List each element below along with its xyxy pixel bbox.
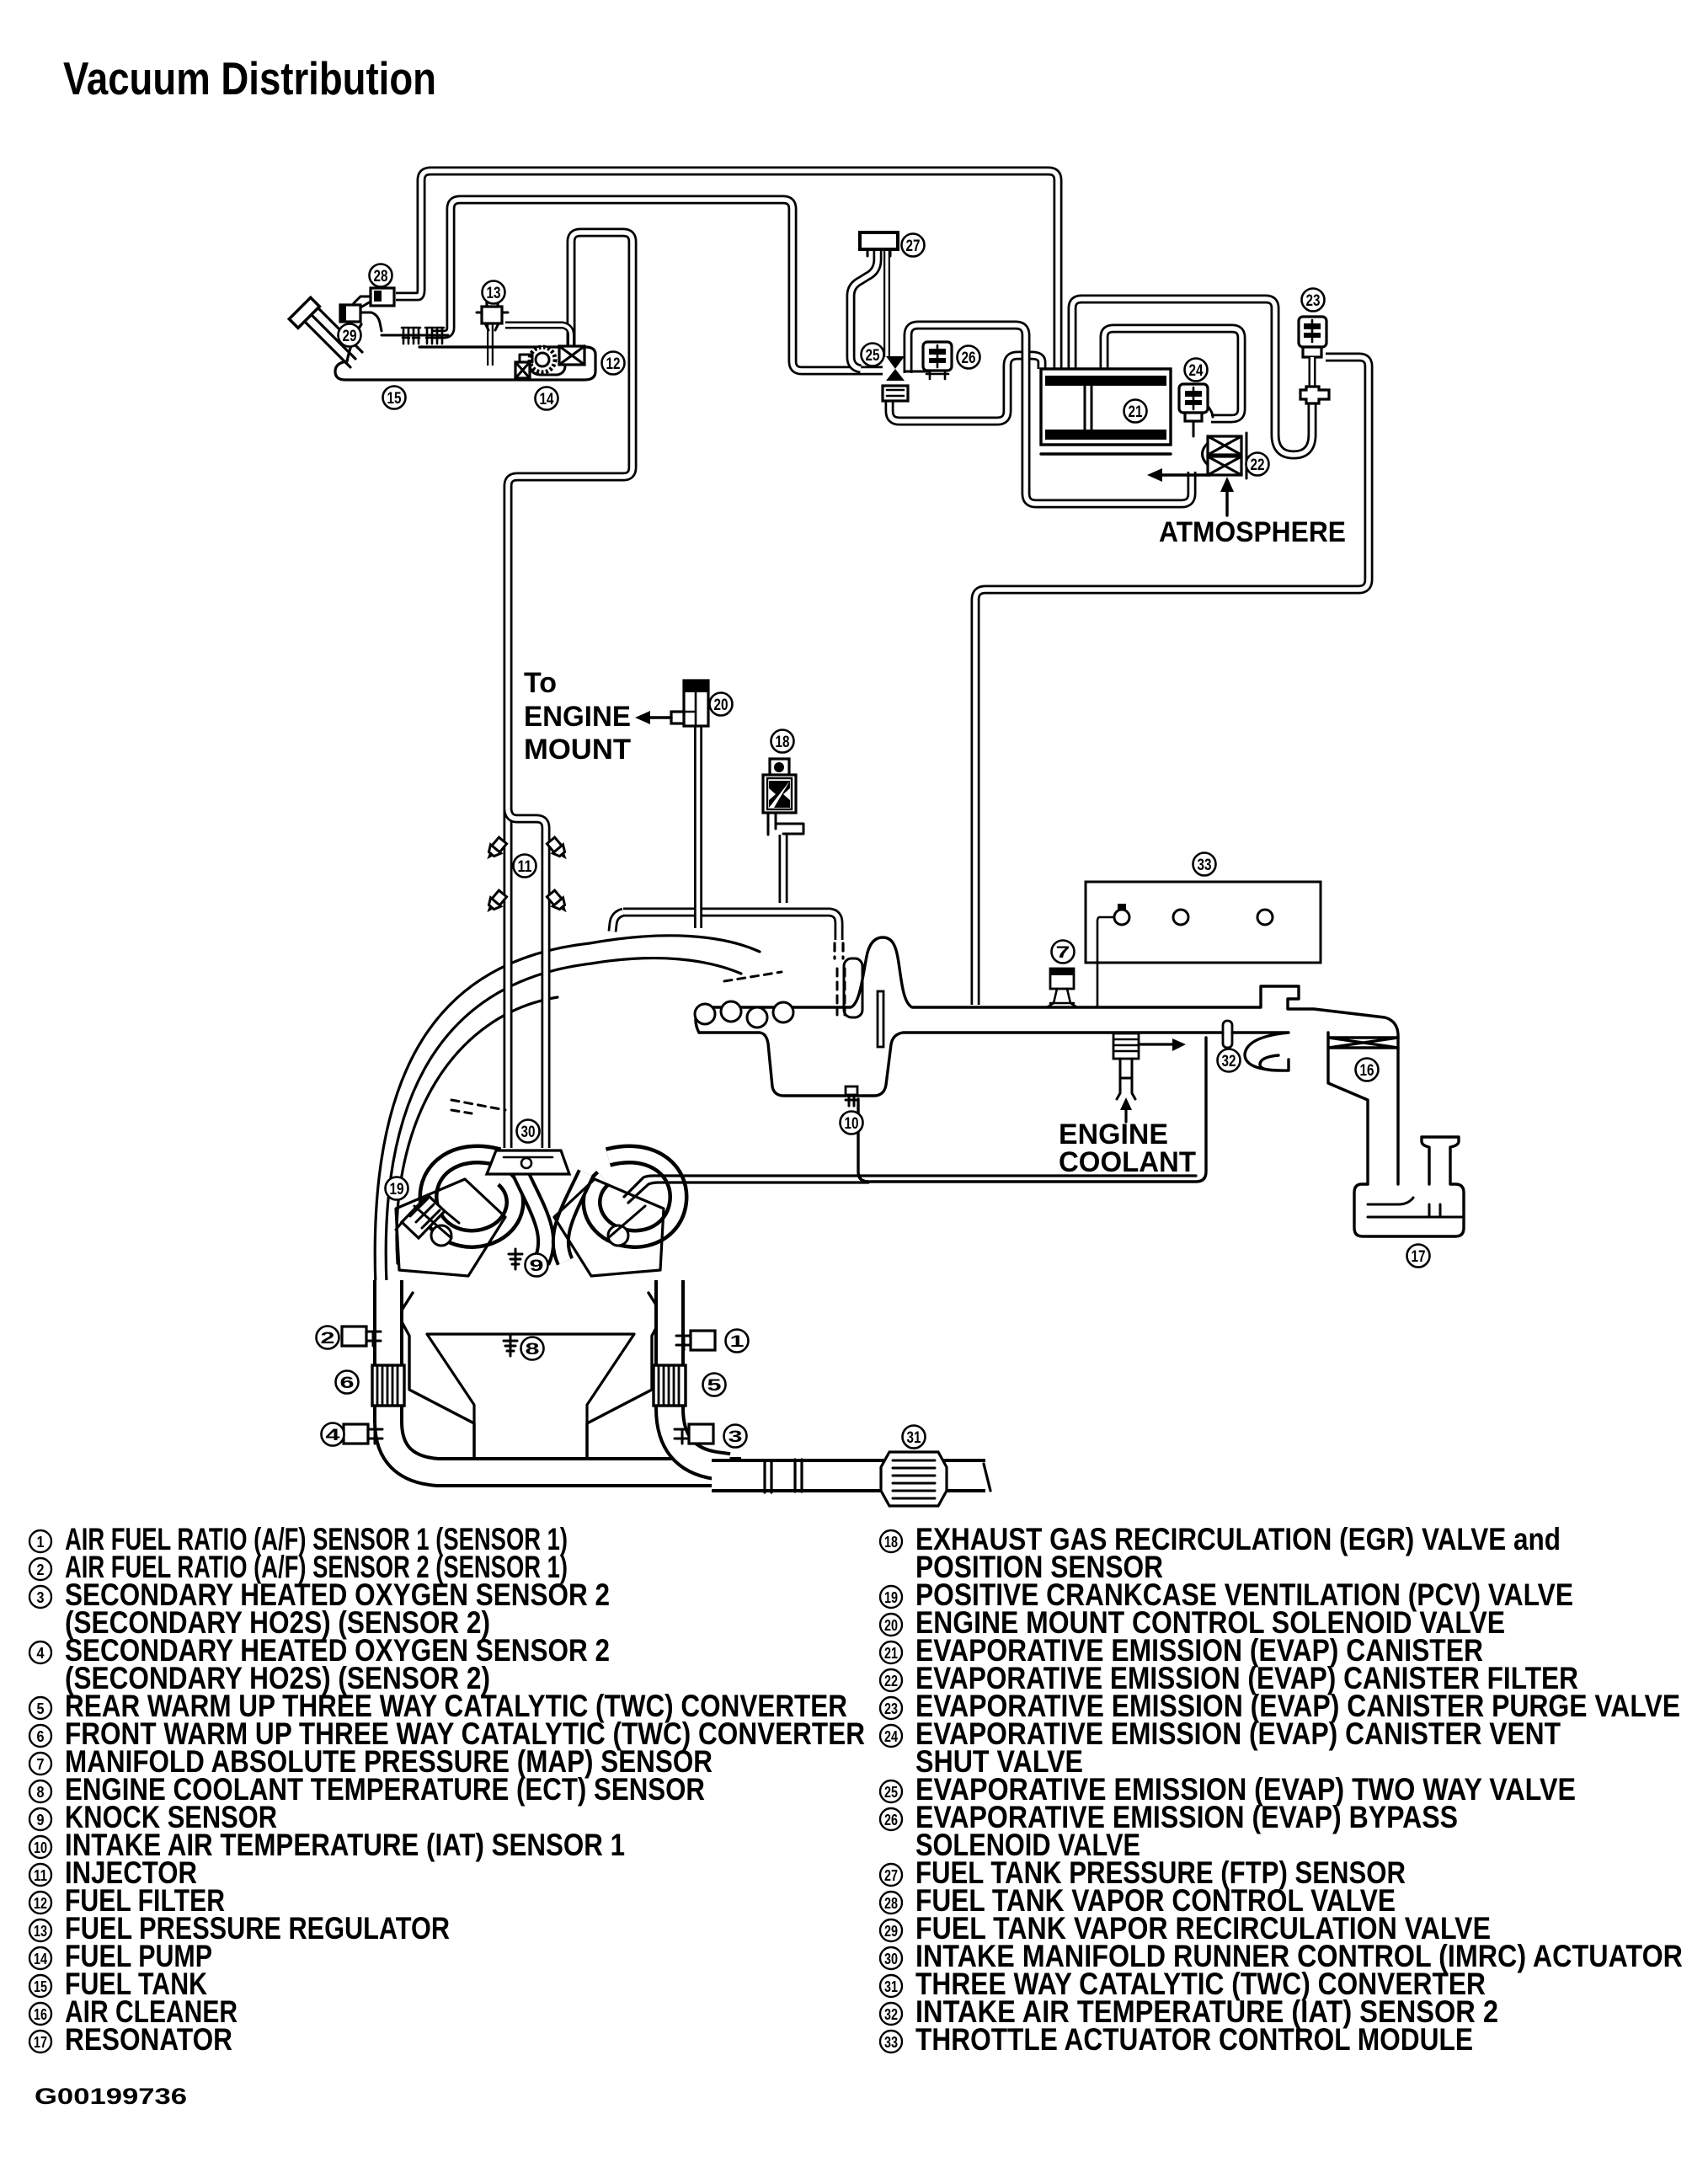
svg-text:24: 24 (1189, 362, 1204, 380)
label 16 (1356, 1059, 1379, 1081)
fuel tank filler neck middle (308, 312, 355, 359)
svg-text:8: 8 (37, 1784, 45, 1801)
label 8 (521, 1337, 544, 1360)
label 31 (903, 1426, 926, 1449)
label 22 (1246, 453, 1269, 476)
legend item 28 (880, 1883, 1396, 1918)
svg-text:21: 21 (884, 1645, 898, 1662)
svg-text:26: 26 (884, 1812, 898, 1828)
legend item 12 (29, 1883, 225, 1918)
svg-text:10: 10 (845, 1115, 859, 1133)
legend item 7 (29, 1744, 713, 1779)
wire from module 33 to duct (1097, 917, 1114, 1007)
atmosphere inlet arrow (1220, 477, 1234, 515)
left cylinder head and exhaust manifold (396, 1179, 505, 1276)
label 2 (317, 1327, 339, 1349)
legend item 13 (29, 1911, 450, 1946)
svg-text:5: 5 (707, 1377, 723, 1395)
fuel filler cap (289, 297, 319, 328)
three way catalytic converter 31 (881, 1452, 947, 1506)
svg-text:31: 31 (884, 1978, 898, 1995)
svg-text:13: 13 (487, 285, 501, 302)
IAT sensor 2 (32) (1216, 1021, 1239, 1048)
IMRC actuator 30 (487, 1150, 569, 1174)
fuel tank filler neck outer (302, 318, 350, 367)
svg-text:32: 32 (1222, 1053, 1236, 1070)
manifold runner crossover right (561, 1173, 586, 1262)
hose: injector rail second branch (508, 809, 546, 1148)
label 5 (703, 1374, 726, 1396)
svg-text:27: 27 (884, 1867, 898, 1884)
svg-text:MOUNT: MOUNT (524, 734, 631, 766)
svg-text:23: 23 (1306, 292, 1321, 310)
svg-text:23: 23 (884, 1700, 898, 1717)
hose: EGR passage left bend (612, 912, 623, 932)
label 12 (602, 352, 625, 375)
hose: fuel tank vapor control valve (28) to EVAP canister top (396, 171, 1058, 369)
label 7 (1052, 941, 1075, 964)
label 6 (336, 1371, 359, 1394)
legend item 14 (29, 1939, 212, 1973)
label 15 (383, 387, 406, 409)
svg-text:20: 20 (714, 697, 729, 714)
hose: plenum sweep middle (386, 958, 741, 1284)
label 19 (386, 1177, 408, 1200)
svg-text:15: 15 (34, 1978, 47, 1995)
A/F sensor 1 (676, 1331, 715, 1350)
svg-text:17: 17 (34, 2034, 47, 2051)
svg-text:19: 19 (390, 1181, 404, 1198)
svg-text:15: 15 (387, 390, 402, 408)
legend item 22 (880, 1661, 1578, 1695)
intake duct left end cap (696, 1007, 699, 1033)
legend item 15 (29, 1967, 207, 2001)
hose: EGR passage horizontal (623, 912, 839, 940)
legend item 1 (29, 1522, 568, 1556)
svg-text:28: 28 (374, 268, 388, 286)
fuel filter 12 (559, 346, 584, 365)
svg-text:13: 13 (34, 1923, 47, 1940)
label 17 (1407, 1245, 1430, 1268)
label 1 (726, 1330, 749, 1353)
hose: purge valve (23) to intake air duct (975, 357, 1369, 1005)
intake manifold runner horn right (592, 1154, 679, 1238)
EGR plenum port (844, 958, 862, 1017)
hose: two way valve (25) bottom loop to canister port (889, 355, 1042, 421)
intake air duct top outline (699, 937, 1398, 1038)
svg-text:17: 17 (1412, 1248, 1426, 1266)
svg-text:2: 2 (37, 1561, 45, 1578)
svg-text:18: 18 (884, 1534, 898, 1551)
label 11 (514, 855, 536, 878)
A/F sensor 2 (342, 1327, 381, 1346)
tailpipe end (984, 1464, 990, 1491)
intake air duct bottom outline (699, 1033, 1289, 1096)
svg-text:3: 3 (729, 1428, 743, 1446)
legend item 20 (880, 1605, 1505, 1640)
legend item 21 (880, 1633, 1483, 1668)
hose: fuel filter (12) to injector rail (508, 232, 632, 1148)
coolant heated purge spout (1113, 1033, 1139, 1099)
svg-text:31: 31 (907, 1429, 921, 1447)
secondary HO2S sensor 3 (675, 1424, 713, 1444)
tee fitting below purge valve 23 (1300, 387, 1329, 403)
legend item 8 (29, 1772, 705, 1807)
legend item 3 (29, 1577, 610, 1612)
svg-text:7: 7 (37, 1756, 45, 1773)
legend item 11 (29, 1855, 197, 1890)
svg-text:26: 26 (962, 350, 976, 367)
label 27 (902, 234, 925, 257)
MAP sensor 7 (1047, 969, 1077, 1007)
svg-text:RESONATOR: RESONATOR (65, 2022, 232, 2057)
fuel tank (15) outline (335, 347, 595, 380)
EVAP canister vent shut valve 24 (1179, 384, 1213, 436)
legend item 16 (29, 1994, 238, 2029)
svg-text:29: 29 (884, 1923, 898, 1940)
label 29 (339, 324, 361, 347)
svg-text:20: 20 (884, 1617, 898, 1634)
fuel tank pressure sensor 27 (860, 232, 898, 256)
svg-text:COOLANT: COOLANT (1059, 1146, 1196, 1178)
atmosphere outlet arrow (1147, 468, 1210, 482)
legend item 30 (880, 1939, 1683, 1973)
injectors 11 (482, 836, 572, 916)
knock sensor 9 bolt (509, 1249, 522, 1269)
legend item 10 (29, 1828, 625, 1862)
svg-text:7: 7 (1056, 944, 1070, 962)
legend item 9 (29, 1800, 277, 1834)
svg-text:8: 8 (526, 1341, 540, 1359)
svg-text:16: 16 (34, 2006, 47, 2023)
svg-text:4: 4 (326, 1427, 341, 1444)
EVAP canister filter 22 (1203, 433, 1247, 478)
label 20 (710, 693, 733, 716)
fuel tank filler neck inner (315, 305, 362, 352)
right exhaust downpipe (670, 1280, 729, 1467)
PCV valve 19 (396, 1195, 459, 1238)
legend item 18 (880, 1522, 1561, 1556)
fuel pump 14 (515, 347, 565, 378)
svg-text:ENGINE: ENGINE (524, 701, 631, 733)
label 3 (724, 1425, 747, 1448)
svg-text:21: 21 (1129, 403, 1143, 421)
svg-text:18: 18 (776, 734, 790, 751)
intake runner ports (695, 1001, 793, 1028)
hose: plenum sweep outer (375, 936, 760, 1287)
svg-text:5: 5 (37, 1700, 45, 1717)
manifold runner crossover left (520, 1173, 546, 1262)
svg-text:29: 29 (343, 328, 357, 345)
front warm up TWC converter 6 (372, 1365, 404, 1406)
purge flow arrow (1139, 1038, 1186, 1051)
legend item 25 (880, 1772, 1576, 1807)
svg-text:To: To (524, 667, 557, 699)
rear warm up TWC converter 5 (654, 1365, 686, 1406)
svg-text:2: 2 (321, 1330, 335, 1348)
svg-text:9: 9 (37, 1812, 45, 1828)
hidden passage (dashed) diagonal (724, 972, 782, 981)
exhaust flange joints (765, 1460, 802, 1492)
legend item 23 (880, 1689, 1680, 1723)
throttle plate (878, 991, 883, 1047)
fuel tank top left outline (347, 324, 361, 361)
intake manifold runner horn left (429, 1154, 515, 1238)
fuel tank vapor recirculation valve 29 (340, 305, 382, 331)
coolant arrow (1120, 1097, 1132, 1122)
svg-text:3: 3 (37, 1589, 45, 1606)
legend item 6 (29, 1716, 865, 1751)
svg-text:24: 24 (884, 1728, 898, 1745)
hidden passage (dashed) manifold (451, 1100, 505, 1113)
label 26 (958, 346, 980, 369)
label 14 (536, 387, 558, 410)
EVAP canister 21 (1041, 369, 1171, 454)
svg-text:1: 1 (37, 1534, 45, 1551)
legend item 19 (880, 1577, 1573, 1612)
hose: fuel tank fittings to EVAP two way valve (25) (431, 200, 883, 371)
svg-text:11: 11 (518, 858, 532, 876)
svg-text:6: 6 (340, 1375, 355, 1392)
hose: EGR hidden passage (dashed) (835, 943, 843, 958)
label 30 (517, 1120, 540, 1143)
resonator 17 (1354, 1137, 1464, 1236)
svg-text:11: 11 (34, 1867, 47, 1884)
svg-text:25: 25 (884, 1784, 898, 1801)
svg-text:33: 33 (1198, 857, 1212, 874)
hose: fuel pressure regulator (13) outlet (505, 325, 571, 347)
svg-text:22: 22 (1251, 456, 1265, 474)
svg-text:9: 9 (530, 1257, 544, 1275)
svg-text:Vacuum Distribution: Vacuum Distribution (63, 52, 436, 104)
secondary HO2S sensor 4 (344, 1424, 382, 1444)
svg-text:22: 22 (884, 1673, 898, 1690)
EGR valve and position sensor 18 (763, 759, 803, 835)
IAT sensor 1 (10) (846, 1086, 857, 1106)
svg-text:19: 19 (884, 1589, 898, 1606)
svg-text:14: 14 (540, 391, 554, 408)
engine mount control solenoid valve 20 (671, 681, 708, 726)
label 21 (1124, 400, 1147, 423)
engine coolant enclosure box (858, 1038, 1206, 1182)
legend item 2 (29, 1550, 568, 1584)
hidden passage (dashed) near throttle (837, 969, 845, 1015)
label 28 (370, 264, 392, 287)
hose: regulator return into tank (487, 318, 494, 366)
svg-text:G00199736: G00199736 (35, 2084, 187, 2109)
label 13 (483, 281, 505, 304)
fuel pressure regulator 13 (477, 300, 508, 330)
label 24 (1185, 359, 1208, 382)
svg-text:12: 12 (606, 355, 621, 373)
hose: canister to vent shut valve (24) inner loop (1104, 328, 1241, 419)
arrow to engine mount (635, 711, 671, 724)
svg-text:25: 25 (866, 347, 880, 365)
svg-text:14: 14 (34, 1951, 47, 1967)
legend item 17 (29, 2022, 232, 2057)
hose: FTP sensor (27) riser (851, 249, 878, 369)
legend item 31 (880, 1967, 1486, 2001)
hose: purge valve 23 to tee fitting (1309, 357, 1316, 396)
svg-text:THROTTLE ACTUATOR CONTROL MODU: THROTTLE ACTUATOR CONTROL MODULE (915, 2022, 1473, 2057)
throttle actuator control module 33 (1086, 882, 1321, 963)
hose: EVAP bypass solenoid (26) loop to canister filter (22) (908, 325, 1192, 504)
engine block cavity (427, 1334, 634, 1459)
label 10 (841, 1112, 863, 1134)
svg-text:6: 6 (37, 1728, 45, 1745)
svg-text:30: 30 (521, 1124, 536, 1141)
EVAP two way valve 25 (883, 356, 928, 401)
svg-text:16: 16 (1360, 1062, 1374, 1080)
legend item 29 (880, 1911, 1491, 1946)
label 9 (526, 1254, 548, 1277)
hose: EGR valve (18) drop (779, 835, 788, 903)
label 32 (1218, 1049, 1241, 1072)
hose: FTP sensor (27) sensing line (883, 249, 890, 357)
label 4 (322, 1423, 344, 1446)
svg-text:27: 27 (906, 238, 921, 255)
fuel tank vapor control valve 28 (354, 288, 394, 307)
legend item 26 (880, 1800, 1458, 1834)
left exhaust downpipe (388, 1280, 741, 1472)
hose: canister to purge valve (23) outer loop (1072, 299, 1312, 455)
main exhaust pipe to tailpipe (712, 1459, 985, 1492)
svg-text:32: 32 (884, 2006, 898, 2023)
engine block outline (398, 1293, 663, 1460)
svg-text:10: 10 (34, 1839, 47, 1856)
label 33 (1193, 853, 1216, 876)
svg-text:30: 30 (884, 1951, 898, 1967)
ECT sensor 8 bolt (504, 1336, 517, 1356)
svg-text:1: 1 (730, 1333, 745, 1351)
EVAP canister purge valve 23 (1299, 317, 1326, 357)
legend item 5 (29, 1689, 847, 1723)
hose fittings on tank vapor lines (382, 328, 448, 344)
coolant hose pair from engine (624, 1176, 1196, 1203)
svg-text:28: 28 (884, 1895, 898, 1912)
legend item 24 (880, 1716, 1561, 1751)
legend item 32 (880, 1994, 1498, 2029)
EVAP bypass solenoid valve 26 (923, 342, 952, 379)
right cylinder head and exhaust manifold (554, 1179, 664, 1276)
hose: plenum sweep inner (397, 997, 558, 1263)
legend item 4 (29, 1633, 610, 1668)
legend item 27 (880, 1855, 1406, 1890)
svg-text:12: 12 (34, 1895, 47, 1912)
svg-text:4: 4 (37, 1645, 45, 1662)
label 23 (1302, 289, 1325, 312)
svg-text:ATMOSPHERE: ATMOSPHERE (1159, 516, 1346, 548)
svg-text:33: 33 (884, 2034, 898, 2051)
air cleaner 16 with filter element (1328, 1033, 1398, 1184)
hose: engine mount solenoid valve (20) drop (694, 726, 702, 928)
label 25 (862, 344, 884, 366)
label 18 (771, 730, 794, 753)
legend item 33 (880, 2022, 1473, 2057)
